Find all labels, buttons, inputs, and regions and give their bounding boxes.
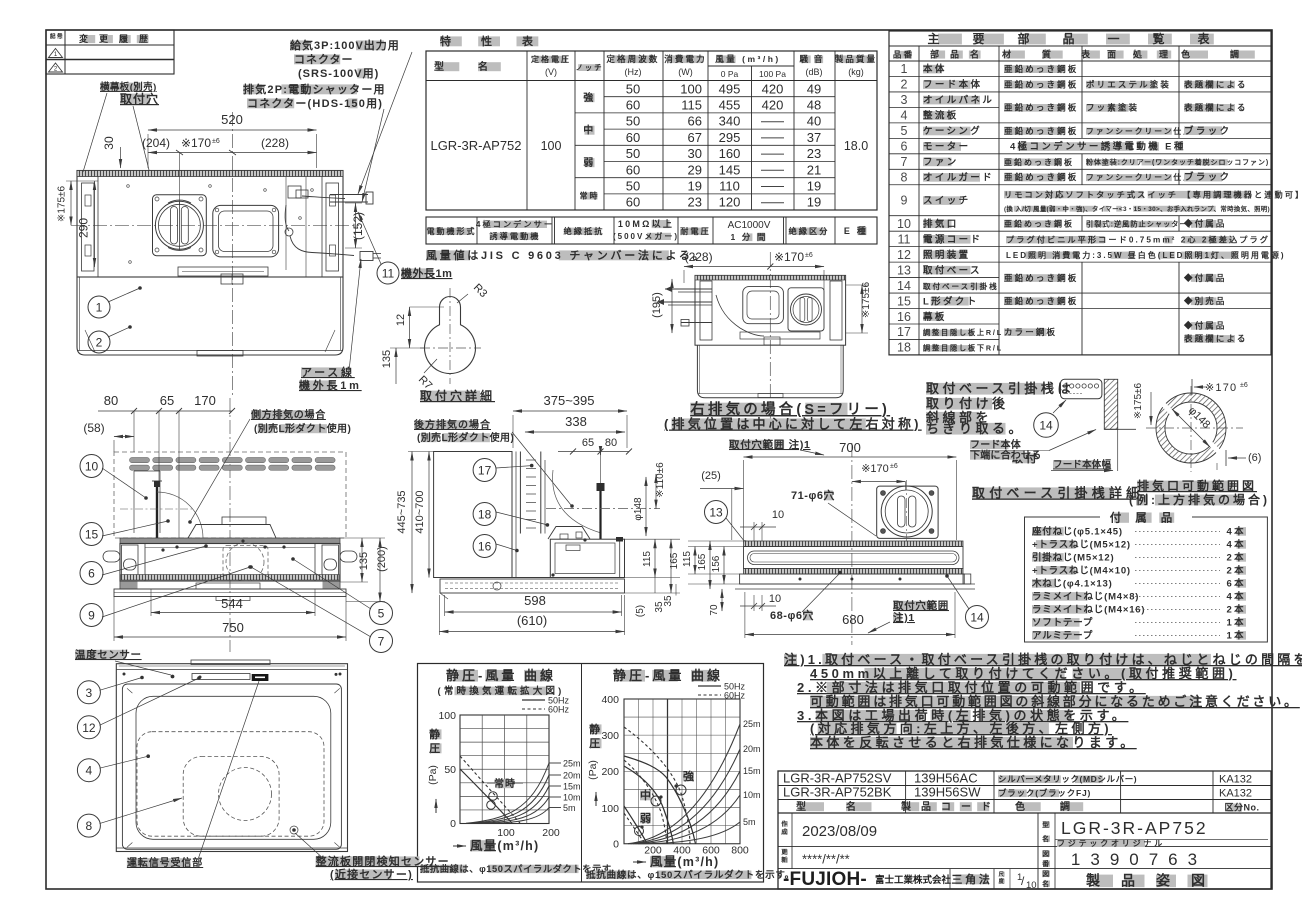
connectors pointing left — [665, 288, 712, 290]
svg-text:亜鉛めっき鋼板: 亜鉛めっき鋼板 — [1004, 296, 1078, 306]
svg-text:(195): (195) — [651, 292, 663, 318]
svg-text:排気2P:電動シャッター用: 排気2P:電動シャッター用 — [243, 82, 386, 96]
svg-text:取付穴詳細: 取付穴詳細 — [420, 388, 495, 403]
svg-text:7: 7 — [378, 635, 385, 649]
svg-text:ファンシークリーン仕上: ファンシークリーン仕上 — [1086, 126, 1193, 136]
svg-text:木ねじ(φ4.1×13): 木ねじ(φ4.1×13) — [1031, 578, 1113, 590]
svg-text:LGR-3R-AP752: LGR-3R-AP752 — [1061, 818, 1208, 838]
svg-text:16: 16 — [897, 310, 911, 324]
svg-text:ソフトテープ: ソフトテープ — [1032, 617, 1093, 629]
svg-text:65: 65 — [160, 393, 174, 408]
svg-text:(例:上方排気の場合): (例:上方排気の場合) — [1129, 492, 1270, 507]
svg-text:(25): (25) — [701, 470, 721, 482]
svg-text:445~735: 445~735 — [396, 490, 408, 533]
right view captions — [690, 403, 775, 416]
svg-text:(常時換気運転拡大図): (常時換気運転拡大図) — [437, 685, 564, 697]
svg-text:6本: 6本 — [1226, 578, 1246, 590]
svg-text:調整目隠し板上R/L: 調整目隠し板上R/L — [923, 328, 1003, 337]
svg-text:15m: 15m — [743, 766, 761, 776]
svg-text:弱: 弱 — [583, 157, 596, 169]
svg-text:4本: 4本 — [1226, 526, 1246, 538]
svg-text:145: 145 — [719, 162, 741, 177]
svg-text:2本: 2本 — [1226, 604, 1246, 616]
svg-text:3: 3 — [86, 686, 93, 700]
svg-text:700: 700 — [839, 440, 861, 455]
svg-text:450mm以上離して取り付けてください。(取付推奨範囲): 450mm以上離して取り付けてください。(取付推奨範囲) — [810, 666, 1237, 681]
svg-text:(58): (58) — [83, 421, 104, 435]
svg-text:17: 17 — [478, 464, 492, 478]
svg-text:亜鉛めっき鋼板: 亜鉛めっき鋼板 — [1004, 64, 1078, 74]
svg-text:コネクター: コネクター — [294, 53, 354, 66]
svg-text:風量(m³/h): 風量(m³/h) — [650, 855, 719, 869]
svg-text:風量値はJIS C 9603 チャンバー法による。: 風量値はJIS C 9603 チャンバー法による。 — [426, 248, 706, 262]
svg-text:100: 100 — [497, 827, 515, 839]
svg-text:亜鉛めっき鋼板: 亜鉛めっき鋼板 — [1004, 172, 1078, 182]
svg-text:4本: 4本 — [1226, 539, 1246, 551]
svg-text:7: 7 — [901, 155, 908, 169]
svg-text:(kg): (kg) — [848, 67, 864, 77]
svg-text:※170: ※170 — [181, 136, 211, 150]
svg-text:8: 8 — [901, 171, 908, 185]
svg-text:引裂式:逆風防止シャッター付: 引裂式:逆風防止シャッター付 — [1086, 219, 1196, 228]
svg-text:19: 19 — [688, 179, 702, 194]
svg-text:60: 60 — [626, 162, 640, 177]
callouts 1 and 2 — [88, 296, 110, 318]
ceiling grille slots — [130, 458, 150, 463]
svg-text:亜鉛めっき鋼板: 亜鉛めっき鋼板 — [1004, 273, 1078, 283]
svg-text:製品姿図: 製品姿図 — [1085, 873, 1226, 889]
svg-text:5m: 5m — [743, 817, 756, 827]
fan casing (side) — [550, 539, 624, 577]
svg-text:420: 420 — [762, 98, 784, 113]
svg-text:◆付属品: ◆付属品 — [1183, 219, 1227, 229]
svg-text:KA132: KA132 — [1219, 788, 1252, 800]
svg-text:シルバーメタリック(MDシルバー): シルバーメタリック(MDシルバー) — [998, 774, 1137, 784]
svg-text:50: 50 — [444, 764, 456, 776]
svg-text:60Hz: 60Hz — [548, 705, 570, 715]
svg-text:(200): (200) — [376, 546, 388, 572]
svg-text:静圧-風量 曲線: 静圧-風量 曲線 — [446, 668, 556, 683]
svg-text:名: 名 — [1042, 879, 1051, 888]
svg-text:後方排気の場合: 後方排気の場合 — [414, 418, 491, 431]
svg-text:23: 23 — [807, 146, 821, 161]
svg-text:強: 強 — [683, 769, 697, 783]
svg-text:139H56AC: 139H56AC — [914, 771, 978, 786]
svg-text:4: 4 — [86, 764, 93, 778]
oil panel frame — [122, 684, 341, 849]
side view — [414, 420, 474, 429]
oil panel top hatched edge — [121, 575, 339, 581]
svg-text:ラミメイトねじ(M4×8): ラミメイトねじ(M4×8) — [1032, 592, 1139, 603]
svg-text:598: 598 — [524, 593, 546, 608]
svg-text:番: 番 — [1041, 859, 1051, 868]
svg-text:±6: ±6 — [890, 463, 898, 470]
svg-text:中: 中 — [583, 124, 596, 137]
svg-text:6: 6 — [88, 567, 95, 581]
svg-text:156: 156 — [711, 555, 722, 572]
svg-text:165: 165 — [697, 553, 708, 570]
svg-text:(152): (152) — [351, 212, 365, 240]
svg-text:100: 100 — [601, 803, 619, 815]
svg-text:(V): (V) — [545, 67, 557, 77]
top labels and leaders — [100, 83, 123, 92]
svg-text:風量 (m³/h): 風量 (m³/h) — [715, 54, 780, 64]
svg-text:整流板開閉検知センサー: 整流板開閉検知センサー — [315, 854, 450, 868]
svg-text:25m: 25m — [563, 759, 581, 769]
svg-text:排気口可動範囲図: 排気口可動範囲図 — [1137, 478, 1257, 493]
lower bands — [120, 581, 340, 589]
svg-text:図: 図 — [1042, 849, 1051, 858]
svg-text:フード本体: フード本体 — [923, 79, 982, 91]
svg-text:375~395: 375~395 — [544, 393, 595, 408]
svg-text:12: 12 — [897, 248, 911, 262]
svg-text:2.※部寸法は排気口取付位置の可動範囲です。: 2.※部寸法は排気口取付位置の可動範囲です。 — [797, 680, 1146, 695]
svg-text:機外長1m: 機外長1m — [299, 378, 362, 392]
svg-text:25m: 25m — [743, 719, 761, 729]
duct flange on base — [877, 486, 938, 538]
svg-text:115: 115 — [682, 551, 693, 567]
svg-text:φ148: φ148 — [633, 497, 644, 521]
svg-text:12: 12 — [82, 721, 96, 735]
svg-text:ポリエステル塗装: ポリエステル塗装 — [1086, 79, 1171, 89]
svg-text:18: 18 — [478, 508, 492, 522]
svg-text:定格電圧: 定格電圧 — [530, 54, 571, 64]
svg-text:度: 度 — [999, 877, 1006, 885]
svg-text:取付ベース引掛桟は: 取付ベース引掛桟は — [926, 381, 1074, 396]
svg-text:10: 10 — [1026, 880, 1037, 891]
svg-text:運転信号受信部: 運転信号受信部 — [127, 856, 203, 869]
svg-text:11: 11 — [382, 267, 395, 281]
svg-text:静: 静 — [589, 722, 603, 736]
svg-text:15: 15 — [85, 528, 99, 542]
svg-text:680: 680 — [842, 612, 864, 627]
svg-text:スイッチ: スイッチ — [923, 196, 971, 207]
svg-text:520: 520 — [221, 112, 243, 127]
mounting hole detail (keyhole) — [425, 297, 476, 374]
hood body (front) — [120, 538, 340, 544]
svg-text:200: 200 — [542, 827, 560, 839]
rectifier plate bump above body — [188, 525, 276, 539]
svg-text:2本: 2本 — [1226, 565, 1246, 577]
svg-text:170: 170 — [194, 393, 216, 408]
svg-text:L形ダクト: L形ダクト — [923, 295, 979, 307]
svg-text:-FUJIOH-: -FUJIOH- — [783, 869, 867, 890]
svg-text:(610): (610) — [517, 613, 547, 628]
svg-text:記: 記 — [50, 32, 57, 40]
svg-text:絶縁抵抗: 絶縁抵抗 — [564, 226, 605, 236]
svg-text:アース線: アース線 — [301, 365, 355, 379]
svg-text:型名: 型名 — [434, 60, 522, 73]
svg-text:10: 10 — [769, 593, 781, 605]
svg-text:100: 100 — [541, 139, 562, 153]
svg-text:フジテックオリジナル: フジテックオリジナル — [1057, 838, 1165, 848]
svg-text:9: 9 — [88, 609, 95, 623]
svg-text:5m: 5m — [563, 803, 576, 813]
duct pipe — [156, 481, 158, 538]
svg-text:亜鉛めっき鋼板: 亜鉛めっき鋼板 — [1004, 103, 1078, 113]
svg-text:尺: 尺 — [999, 870, 1006, 878]
svg-text:8: 8 — [86, 819, 93, 833]
svg-text:295: 295 — [719, 130, 741, 145]
front skirt (top view) — [77, 277, 343, 355]
notes — [784, 654, 797, 666]
svg-text:本体: 本体 — [923, 63, 947, 75]
svg-text:5: 5 — [378, 607, 385, 621]
svg-text:(SRS-100V用): (SRS-100V用) — [298, 67, 379, 80]
svg-text:表題欄による: 表題欄による — [1183, 103, 1248, 113]
svg-text:750: 750 — [222, 620, 244, 635]
svg-text:16: 16 — [478, 540, 492, 554]
bottom view — [75, 650, 126, 660]
svg-text:50: 50 — [626, 146, 640, 161]
svg-text:亜鉛めっき鋼板: 亜鉛めっき鋼板 — [1004, 79, 1078, 89]
svg-text:主要部品一覧表: 主要部品一覧表 — [927, 31, 1242, 46]
svg-text:騒音: 騒音 — [798, 54, 828, 64]
svg-text:80: 80 — [605, 437, 617, 449]
svg-text:60: 60 — [626, 130, 640, 145]
svg-text:表題欄による: 表題欄による — [1183, 334, 1248, 344]
svg-text:本体を反転させると右排気仕様になります。: 本体を反転させると右排気仕様になります。 — [810, 735, 1137, 750]
svg-text:(Hz): (Hz) — [625, 67, 642, 77]
svg-text:(dB): (dB) — [805, 67, 822, 77]
mounting hooks outside body — [103, 551, 120, 562]
svg-text:※175±6: ※175±6 — [861, 282, 872, 319]
svg-text:65: 65 — [582, 437, 594, 449]
svg-text:作: 作 — [781, 820, 789, 828]
svg-text:(5): (5) — [635, 605, 646, 617]
lamp bar (top view) — [178, 267, 268, 276]
svg-text:6: 6 — [901, 140, 908, 154]
svg-text:静: 静 — [429, 727, 443, 741]
svg-text:取付穴範囲: 取付穴範囲 — [893, 599, 949, 612]
right exhaust top view — [769, 252, 771, 420]
svg-text:30: 30 — [102, 136, 116, 150]
svg-text:品番: 品番 — [893, 50, 914, 60]
svg-text:110: 110 — [719, 179, 740, 194]
svg-text:座付ねじ(φ5.1×45): 座付ねじ(φ5.1×45) — [1031, 526, 1123, 538]
svg-text:ちぎり取る。: ちぎり取る。 — [926, 421, 1025, 436]
svg-text:11: 11 — [898, 232, 911, 246]
svg-text:(別売L形ダクト使用): (別売L形ダクト使用) — [254, 422, 351, 435]
exhaust port movable range diagram — [1156, 393, 1226, 463]
svg-text:◆別売品: ◆別売品 — [1183, 296, 1227, 306]
svg-text:整流板: 整流板 — [922, 110, 959, 122]
svg-text:(204): (204) — [142, 136, 170, 150]
svg-text:30: 30 — [688, 146, 702, 161]
svg-text:1: 1 — [901, 62, 908, 76]
svg-text:※175±6: ※175±6 — [57, 186, 68, 223]
motor spec table — [426, 217, 877, 244]
svg-text:14: 14 — [897, 279, 911, 293]
svg-text:23: 23 — [688, 195, 702, 210]
svg-text:135: 135 — [381, 350, 393, 368]
title block — [778, 771, 1271, 889]
svg-text:(換 入/切 風量(弱・中・強)、タイマー<3・15・30>: (換 入/切 風量(弱・中・強)、タイマー<3・15・30>、お手入れランプ、常… — [1004, 204, 1270, 213]
svg-text:付属品: 付属品 — [1110, 511, 1187, 525]
bottom view callouts — [77, 681, 100, 704]
svg-text:4: 4 — [901, 109, 908, 123]
svg-text:1本: 1本 — [1226, 617, 1246, 629]
svg-text:可動範囲は排気口可動範囲図の斜線部分になるためご注意ください: 可動範囲は排気口可動範囲図の斜線部分になるためご注意ください。 — [810, 694, 1300, 709]
lamp bar and receiver — [192, 674, 250, 680]
svg-text:中: 中 — [640, 788, 654, 802]
svg-text:±6: ±6 — [805, 252, 813, 259]
svg-text:側方排気の場合: 側方排気の場合 — [250, 408, 326, 421]
svg-text:3: 3 — [901, 93, 908, 107]
svg-text:取付ベース引掛桟詳細: 取付ベース引掛桟詳細 — [972, 486, 1143, 501]
svg-text:幕板: 幕板 — [922, 311, 947, 323]
svg-text:強: 強 — [583, 91, 596, 104]
svg-text:340: 340 — [719, 114, 741, 129]
svg-text:成: 成 — [781, 828, 789, 836]
svg-text:2: 2 — [96, 336, 103, 350]
svg-text:フード本体幅: フード本体幅 — [1053, 459, 1112, 471]
svg-text:17: 17 — [897, 325, 911, 339]
svg-text:19: 19 — [807, 179, 821, 194]
svg-text:LED照明 消費電力:3.5W 昼白色(LED照明1灯、照明: LED照明 消費電力:3.5W 昼白色(LED照明1灯、照明用電源) — [1006, 250, 1286, 260]
svg-text:(排気位置は中心に対して左右対称): (排気位置は中心に対して左右対称) — [664, 417, 922, 432]
hood body outline (top view) — [77, 171, 343, 278]
main parts list table — [889, 31, 1271, 355]
svg-text:弱: 弱 — [640, 812, 654, 825]
svg-text:電源コード: 電源コード — [923, 233, 982, 245]
svg-text:70: 70 — [709, 604, 720, 616]
svg-text:67: 67 — [688, 130, 702, 145]
svg-text:AC1000V: AC1000V — [728, 220, 771, 231]
svg-text:オイルガード: オイルガード — [923, 172, 994, 184]
svg-text:100: 100 — [680, 81, 702, 96]
svg-text:400: 400 — [601, 694, 619, 706]
svg-text:排気口: 排気口 — [923, 218, 959, 230]
svg-text:4本: 4本 — [1226, 591, 1246, 603]
svg-text:120: 120 — [719, 195, 741, 210]
svg-text:1 分 間: 1 分 間 — [730, 232, 767, 242]
duct space dashed box — [114, 452, 346, 538]
rectifier plate dashed outlines — [137, 732, 324, 837]
svg-text:取り付け後: 取り付け後 — [926, 396, 1009, 411]
svg-text:定格周波数: 定格周波数 — [605, 54, 659, 64]
svg-text:48: 48 — [807, 98, 821, 113]
svg-text:50: 50 — [626, 114, 640, 129]
svg-text:(Pa): (Pa) — [427, 765, 439, 785]
base rail — [744, 541, 964, 547]
svg-text:20m: 20m — [743, 744, 761, 754]
svg-text:(500Vメガー): (500Vメガー) — [613, 231, 679, 241]
svg-text:注)1.取付ベース・取付ベース引掛桟の取り付けは、ねじとねじ: 注)1.取付ベース・取付ベース引掛桟の取り付けは、ねじとねじの間隔を — [784, 652, 1302, 667]
oil panel (side) — [434, 577, 625, 579]
svg-text:68-φ6穴: 68-φ6穴 — [770, 608, 814, 622]
svg-text:フッ素塗装: フッ素塗装 — [1086, 103, 1139, 113]
svg-text:135: 135 — [358, 552, 370, 570]
svg-text:特性表: 特性表 — [440, 34, 563, 48]
svg-text:2023/08/09: 2023/08/09 — [802, 823, 877, 840]
fan unit — [153, 195, 207, 256]
svg-text:静圧-風量 曲線: 静圧-風量 曲線 — [613, 668, 723, 683]
svg-text:115: 115 — [681, 98, 702, 113]
svg-text:新: 新 — [781, 856, 789, 864]
svg-text:給気3P:100V出力用: 給気3P:100V出力用 — [290, 38, 400, 52]
svg-text:10MΩ以上: 10MΩ以上 — [618, 218, 674, 229]
svg-text:(Pa): (Pa) — [587, 760, 599, 780]
svg-text:E 種: E 種 — [844, 225, 868, 236]
svg-text:9: 9 — [901, 194, 908, 208]
svg-text:35: 35 — [663, 595, 674, 607]
svg-text:(228): (228) — [261, 136, 289, 150]
svg-text:フード本体: フード本体 — [970, 438, 1022, 451]
svg-text:29: 29 — [688, 162, 702, 177]
svg-text:製品コード: 製品コード — [900, 800, 1001, 813]
svg-text:常時: 常時 — [580, 191, 600, 201]
svg-text:ノッチ: ノッチ — [576, 63, 604, 72]
svg-text:50: 50 — [626, 81, 640, 96]
front view — [229, 398, 231, 652]
svg-text:ラミメイトねじ(M4×16): ラミメイトねじ(M4×16) — [1032, 605, 1145, 616]
svg-text:4極コンデンサー誘導電動機 E種: 4極コンデンサー誘導電動機 E種 — [1010, 141, 1186, 153]
svg-text:ファン: ファン — [923, 157, 959, 168]
svg-text:0: 0 — [450, 818, 456, 830]
svg-text:色調: 色調 — [1181, 49, 1279, 60]
svg-text:300: 300 — [601, 730, 619, 742]
svg-text:18: 18 — [897, 341, 911, 355]
svg-text:15m: 15m — [563, 782, 581, 792]
svg-text:※110±6: ※110±6 — [655, 462, 666, 498]
svg-text:亜鉛めっき鋼板: 亜鉛めっき鋼板 — [1004, 126, 1078, 136]
svg-text:290: 290 — [77, 218, 91, 238]
svg-text:富士工業株式会社: 富士工業株式会社 — [875, 874, 952, 886]
accessories box — [1025, 517, 1268, 642]
svg-text:オイルパネル: オイルパネル — [923, 94, 994, 106]
svg-text:ファンシークリーン仕上: ファンシークリーン仕上 — [1086, 172, 1193, 182]
svg-text:プラグ付ビニル平形コード0.75mm² 2心 2極差込プラ: プラグ付ビニル平形コード0.75mm² 2心 2極差込プラグ — [1006, 234, 1270, 244]
svg-text:(W): (W) — [678, 67, 693, 77]
svg-text:取付ベース引掛桟: 取付ベース引掛桟 — [923, 281, 999, 291]
svg-text:66: 66 — [688, 114, 702, 129]
svg-text:+トラスねじ(M5×12): +トラスねじ(M5×12) — [1032, 540, 1131, 551]
svg-text:亜鉛めっき鋼板: 亜鉛めっき鋼板 — [1004, 219, 1074, 229]
svg-text:◆付属品: ◆付属品 — [1183, 273, 1227, 283]
svg-text:色調: 色調 — [1015, 800, 1105, 813]
side view body — [434, 452, 512, 578]
svg-text:材質: 材質 — [1001, 49, 1082, 60]
svg-text:温度センサー: 温度センサー — [75, 648, 142, 661]
svg-text:絶縁区分: 絶縁区分 — [789, 226, 830, 236]
svg-text:(近接センサー): (近接センサー) — [330, 867, 413, 881]
svg-text:1: 1 — [96, 301, 103, 315]
svg-text:0: 0 — [613, 839, 619, 851]
svg-text:80: 80 — [104, 393, 118, 408]
characteristics table (tokusei-hyo) — [440, 36, 462, 46]
svg-text:LGR-3R-AP752: LGR-3R-AP752 — [430, 138, 521, 153]
svg-text:10m: 10m — [563, 793, 581, 803]
svg-text:※175±6: ※175±6 — [1133, 383, 1144, 420]
svg-text:71-φ6穴: 71-φ6穴 — [791, 488, 835, 502]
svg-text:13: 13 — [709, 506, 723, 520]
svg-text:コネクター(HDS-150用): コネクター(HDS-150用) — [247, 97, 383, 110]
svg-text:10: 10 — [772, 509, 784, 521]
svg-text:区分No.: 区分No. — [1225, 802, 1260, 813]
svg-text:ブラック(ブラックFJ): ブラック(ブラックFJ) — [998, 788, 1091, 798]
side view callouts 17 18 16 — [473, 459, 496, 482]
svg-text:200: 200 — [601, 766, 619, 778]
svg-text:10: 10 — [85, 460, 99, 474]
svg-text:圧: 圧 — [429, 742, 443, 755]
svg-text:(対応排気方向:左上方、左後方、左側方): (対応排気方向:左上方、左後方、左側方) — [810, 721, 1112, 736]
svg-text:±6: ±6 — [212, 138, 220, 145]
svg-text:2: 2 — [901, 78, 908, 92]
svg-text:リモコン対応ソフトタッチ式スイッチ 【専用調理機器と連動可】: リモコン対応ソフトタッチ式スイッチ 【専用調理機器と連動可】 — [1004, 189, 1302, 199]
mounting base view — [851, 443, 853, 645]
svg-text:抵抗曲線は、φ150スパイラルダクトを示す。: 抵抗曲線は、φ150スパイラルダクトを示す。 — [586, 869, 795, 881]
